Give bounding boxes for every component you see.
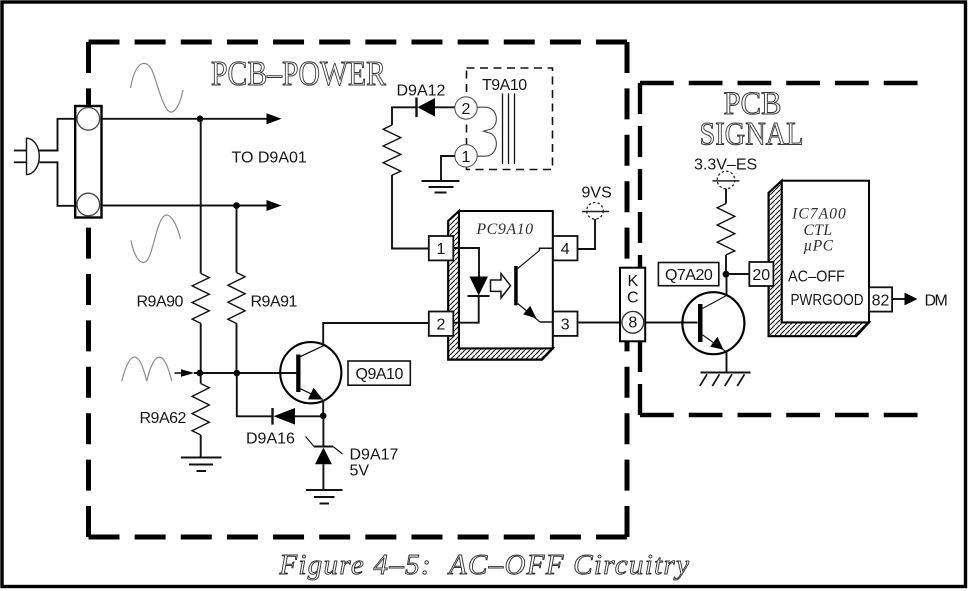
svg-text:IC7A00: IC7A00 bbox=[791, 206, 847, 223]
svg-text:5V: 5V bbox=[350, 463, 370, 480]
svg-text:T9A10: T9A10 bbox=[482, 77, 527, 94]
wire R9A90 vertical bbox=[200, 119, 202, 274]
transformer coil bbox=[478, 107, 497, 156]
svg-text:9VS: 9VS bbox=[582, 185, 612, 202]
svg-text:AC–OFF: AC–OFF bbox=[788, 269, 845, 286]
svg-text:CTL: CTL bbox=[803, 222, 832, 239]
junction node right bbox=[234, 370, 241, 377]
junction emitter/diode bbox=[320, 413, 327, 420]
power node 9VS bbox=[587, 203, 604, 220]
phototransistor bbox=[514, 266, 518, 305]
junction node left bbox=[197, 370, 204, 377]
wire plug to filter top bbox=[39, 119, 75, 151]
svg-text:D9A12: D9A12 bbox=[397, 83, 446, 100]
wire 9VS to pin 4 bbox=[578, 219, 596, 249]
svg-text:PCB–POWER: PCB–POWER bbox=[211, 54, 387, 93]
transformer T9A10 pin 2 bbox=[455, 97, 477, 119]
wire Q7A20 emitter to ground bbox=[726, 352, 728, 372]
ground under R9A62 bbox=[181, 458, 222, 472]
svg-text:PC9A10: PC9A10 bbox=[475, 221, 533, 238]
PCB-POWER dashed box bbox=[89, 42, 628, 537]
resistor (D9A12 branch) bbox=[383, 125, 401, 175]
svg-text:8: 8 bbox=[628, 314, 637, 331]
wire resistor to PC9A10 pin 1 bbox=[392, 175, 429, 249]
power node 3.3V-ES bbox=[717, 171, 735, 189]
svg-text:2: 2 bbox=[437, 317, 446, 334]
wire corner to D9A12 bbox=[392, 107, 416, 125]
wire pin82 out bbox=[892, 298, 905, 300]
transistor Q9A10 bbox=[280, 342, 341, 403]
IC7A00 body bbox=[782, 181, 869, 323]
svg-text:R9A90: R9A90 bbox=[137, 294, 184, 311]
svg-text:1: 1 bbox=[437, 241, 446, 258]
optocoupler PC9A10 hatched band bbox=[448, 211, 553, 360]
svg-text:3.3V–ES: 3.3V–ES bbox=[694, 157, 757, 174]
svg-text:C: C bbox=[627, 290, 639, 307]
wire R9A91 to node bbox=[236, 323, 238, 373]
pin 3 box bbox=[553, 312, 578, 336]
line filter box bbox=[75, 106, 101, 218]
arrow top bbox=[267, 113, 282, 124]
node junction top bbox=[197, 116, 204, 123]
svg-text:PWRGOOD: PWRGOOD bbox=[791, 292, 864, 309]
svg-text:Figure 4–5: AC–OFF Circuitry: Figure 4–5: AC–OFF Circuitry bbox=[278, 549, 690, 581]
junction Q7A20 collector bbox=[723, 271, 730, 278]
transformer T9A10 pin 1 bbox=[455, 145, 477, 167]
transistor Q7A20 bbox=[682, 292, 744, 354]
wire connector to Q7A20 bbox=[645, 322, 697, 324]
transformer T9A10 dashed box bbox=[467, 68, 553, 170]
svg-text:µPC: µPC bbox=[803, 238, 833, 255]
input arrow into node bbox=[175, 372, 183, 374]
zener D9A17 bbox=[322, 416, 324, 448]
resistor R9A62 bbox=[192, 384, 209, 436]
pin 2 box bbox=[429, 312, 454, 336]
node wire horizontal bbox=[194, 372, 296, 374]
wire node to R9A62 bbox=[200, 373, 202, 384]
resistor R9A90 bbox=[192, 273, 209, 323]
svg-text:D9A17: D9A17 bbox=[350, 447, 399, 464]
svg-text:1: 1 bbox=[462, 149, 471, 166]
resistor 3.3V branch bbox=[717, 204, 735, 255]
svg-text:20: 20 bbox=[752, 267, 770, 284]
wire Q9A10 emitter down bbox=[322, 400, 324, 417]
wire R9A91 vertical bbox=[236, 206, 238, 273]
wire pin3 to connector bbox=[578, 322, 621, 324]
svg-text:Q7A20: Q7A20 bbox=[665, 267, 713, 284]
svg-text:R9A62: R9A62 bbox=[140, 410, 187, 427]
pin 1 box bbox=[429, 236, 454, 260]
wire junction to pin 20 bbox=[726, 273, 749, 275]
optocoupler PC9A10 body bbox=[459, 211, 553, 348]
connector KC8 bbox=[620, 268, 645, 342]
wire D9A16 to emitter node bbox=[295, 415, 323, 417]
wire D9A12 to T9A10 pin 2 bbox=[435, 106, 455, 108]
svg-text:82: 82 bbox=[872, 292, 890, 309]
wire D9A17 to ground bbox=[322, 464, 324, 490]
wire R9A90 to node bbox=[200, 323, 202, 373]
diode D9A12 bbox=[415, 98, 417, 118]
LED inside optocoupler bbox=[453, 248, 479, 277]
arrow DM bbox=[905, 293, 918, 306]
pin 4 box bbox=[553, 236, 578, 260]
svg-text:2: 2 bbox=[462, 101, 471, 118]
svg-text:3: 3 bbox=[561, 317, 570, 334]
wire AC bottom line bbox=[102, 205, 269, 207]
wire plug to filter bottom bbox=[39, 162, 75, 206]
svg-text:R9A91: R9A91 bbox=[251, 294, 298, 311]
rectified sine (two humps) bbox=[122, 357, 172, 382]
arrow bottom bbox=[267, 200, 282, 211]
pin 82 box bbox=[869, 287, 892, 311]
svg-text:D9A16: D9A16 bbox=[246, 431, 295, 448]
transformer core lines bbox=[503, 94, 515, 165]
wire 3.3V-ES to resistor bbox=[725, 189, 727, 204]
label box Q9A10 bbox=[348, 361, 410, 385]
light arrow bbox=[491, 274, 511, 299]
resistor R9A91 bbox=[228, 273, 245, 324]
svg-text:Q9A10: Q9A10 bbox=[356, 366, 404, 383]
wire R9A91 down to D9A16 bbox=[237, 373, 272, 416]
ground under D9A17 bbox=[306, 490, 343, 504]
svg-text:K: K bbox=[627, 273, 638, 290]
diode D9A16 bbox=[271, 408, 273, 425]
ground under T9A10 bbox=[422, 181, 460, 193]
chassis ground Q7A20 bbox=[700, 373, 751, 387]
wire Q7A20 collector bbox=[726, 274, 728, 296]
svg-text:SIGNAL: SIGNAL bbox=[700, 117, 804, 153]
node junction bottom bbox=[233, 202, 240, 209]
pin 20 box bbox=[749, 262, 773, 286]
sine wave top bbox=[131, 63, 184, 112]
IC7A00 hatched band bbox=[769, 181, 869, 337]
label box Q7A20 bbox=[658, 263, 718, 286]
wire R9A62 to ground bbox=[200, 435, 202, 458]
AC plug bbox=[27, 138, 40, 174]
wire resistor to junction bbox=[725, 255, 727, 274]
svg-text:DM: DM bbox=[925, 293, 948, 310]
wire Q9A10 collector up bbox=[323, 323, 429, 346]
wire xfmr pin1 to ground bbox=[441, 156, 455, 181]
svg-text:4: 4 bbox=[561, 241, 570, 258]
svg-text:TO D9A01: TO D9A01 bbox=[232, 150, 307, 167]
PCB SIGNAL dashed box bbox=[640, 83, 918, 415]
wire AC top line bbox=[102, 118, 269, 120]
sine wave bottom (inverted) bbox=[131, 215, 181, 262]
